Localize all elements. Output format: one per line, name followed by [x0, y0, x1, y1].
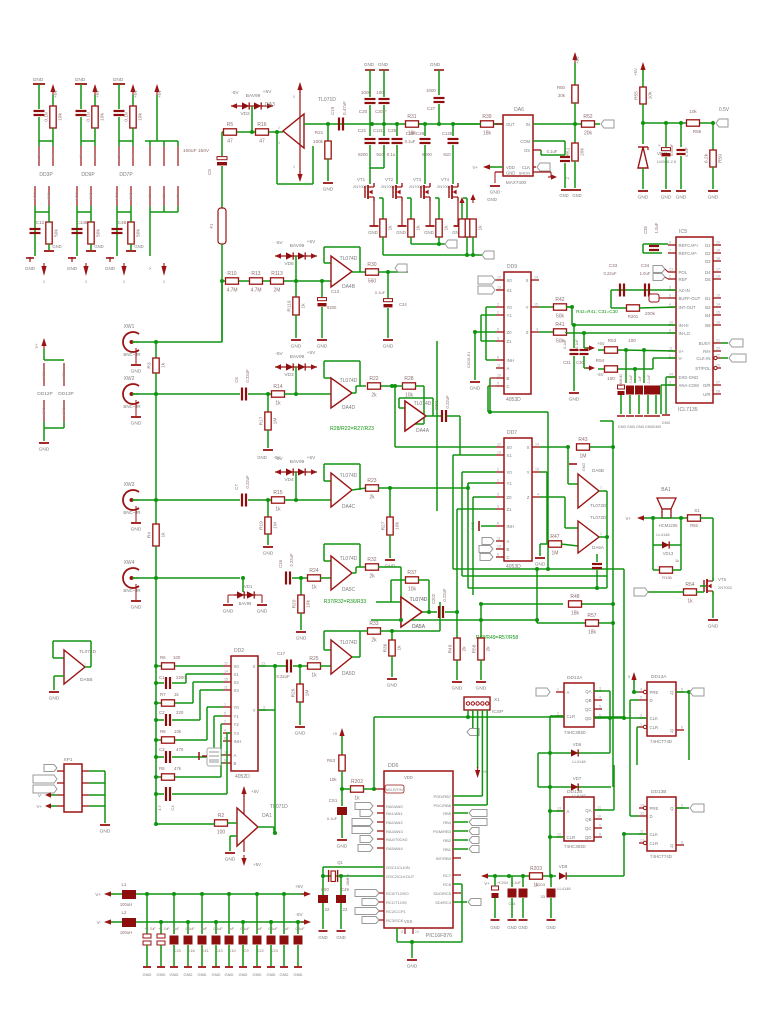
svg-text:A: A — [567, 809, 570, 814]
svg-text:C5: C5 — [207, 169, 212, 175]
svg-text:+C204: +C204 — [497, 881, 508, 885]
svg-text:GND: GND — [676, 195, 687, 201]
svg-text:V+: V+ — [473, 165, 479, 170]
svg-text:4: 4 — [640, 688, 642, 692]
svg-text:R22: R22 — [369, 376, 378, 382]
svg-text:GND: GND — [253, 972, 262, 977]
svg-text:910: 910 — [376, 152, 384, 157]
svg-text:Z0: Z0 — [507, 330, 513, 335]
svg-text:GND: GND — [407, 964, 418, 970]
svg-text:BNC~JR: BNC~JR — [123, 588, 140, 593]
svg-text:0.22uF: 0.22uF — [245, 369, 250, 382]
svg-text:LM4040: LM4040 — [619, 374, 623, 386]
svg-text:GND: GND — [661, 195, 672, 201]
svg-text:10k: 10k — [306, 600, 312, 608]
svg-text:10k: 10k — [58, 113, 64, 121]
svg-text:DA6B: DA6B — [592, 468, 604, 473]
svg-text:R9: R9 — [159, 766, 165, 771]
svg-text:R63: R63 — [327, 758, 336, 763]
svg-text:R28/R22=R27/R23: R28/R22=R27/R23 — [330, 426, 374, 432]
svg-text:DA6A: DA6A — [592, 545, 605, 550]
svg-text:+5: +5 — [332, 731, 337, 736]
svg-text:GND: GND — [129, 192, 133, 200]
svg-text:V+: V+ — [564, 176, 570, 181]
svg-text:1k: 1k — [675, 558, 679, 563]
svg-text:13: 13 — [497, 286, 501, 290]
svg-text:8: 8 — [131, 155, 135, 157]
svg-text:11: 11 — [640, 830, 644, 834]
svg-text:0.1uF: 0.1uF — [405, 139, 416, 144]
svg-text:19: 19 — [716, 249, 720, 253]
svg-text:GND: GND — [198, 972, 207, 977]
svg-text:0.22uF: 0.22uF — [445, 395, 450, 408]
svg-text:Z1: Z1 — [507, 339, 513, 344]
svg-text:R201: R201 — [628, 314, 639, 319]
svg-text:5: 5 — [669, 286, 671, 290]
svg-text:R23: R23 — [367, 478, 376, 484]
svg-text:10k: 10k — [689, 109, 697, 114]
svg-text:8200: 8200 — [422, 152, 432, 157]
svg-text:GND: GND — [507, 925, 516, 930]
svg-text:Y0: Y0 — [507, 305, 513, 310]
svg-text:10k: 10k — [648, 91, 654, 99]
svg-text:4: 4 — [224, 729, 226, 733]
svg-text:Y2: Y2 — [234, 722, 240, 727]
svg-text:R119: R119 — [287, 300, 293, 311]
svg-text:C28: C28 — [416, 131, 425, 136]
svg-text:470: 470 — [176, 747, 184, 752]
svg-text:TL074D: TL074D — [340, 256, 358, 262]
svg-text:5: 5 — [628, 675, 630, 679]
svg-text:0.1uF: 0.1uF — [327, 816, 338, 821]
svg-text:10k: 10k — [100, 113, 106, 121]
svg-text:16: 16 — [716, 321, 720, 325]
svg-text:ANA-COM: ANA-COM — [679, 383, 700, 388]
svg-text:R203: R203 — [530, 866, 542, 872]
svg-text:PIC16F876: PIC16F876 — [426, 933, 452, 939]
svg-text:1uF: 1uF — [638, 376, 642, 382]
svg-text:2: 2 — [278, 126, 280, 130]
svg-text:B1: B1 — [705, 296, 711, 301]
svg-text:BNC~JR: BNC~JR — [123, 404, 140, 409]
svg-text:100uF 160V: 100uF 160V — [183, 148, 210, 154]
svg-text:C16: C16 — [278, 559, 283, 568]
svg-text:X: X — [526, 278, 529, 283]
svg-text:QB: QB — [585, 817, 591, 822]
svg-text:TL074D: TL074D — [79, 649, 97, 655]
svg-text:4.7M: 4.7M — [226, 288, 237, 294]
svg-text:QC: QC — [585, 707, 591, 712]
svg-text:4: 4 — [669, 303, 671, 307]
svg-text:+5V: +5V — [263, 89, 272, 95]
svg-text:100k: 100k — [313, 139, 324, 144]
svg-text:18k: 18k — [588, 630, 597, 636]
svg-text:13: 13 — [557, 807, 561, 811]
svg-text:GND: GND — [487, 197, 497, 202]
svg-text:GND: GND — [257, 609, 268, 615]
svg-text:R52: R52 — [583, 114, 592, 120]
svg-text:5: 5 — [123, 280, 125, 284]
svg-text:C121: C121 — [373, 128, 384, 133]
svg-text:1k: 1k — [416, 225, 422, 231]
svg-text:-5V: -5V — [275, 456, 283, 462]
svg-text:BNC~JR: BNC~JR — [123, 352, 140, 357]
svg-text:RB2: RB2 — [443, 838, 452, 843]
svg-text:10k: 10k — [174, 729, 182, 734]
svg-text:8: 8 — [599, 833, 601, 837]
svg-text:6: 6 — [497, 522, 499, 526]
svg-text:1k: 1k — [311, 673, 317, 679]
svg-text:1k: 1k — [397, 645, 403, 651]
svg-text:VCC: VCC — [42, 371, 46, 378]
svg-text:TL071D: TL071D — [270, 804, 288, 810]
svg-text:10k: 10k — [138, 113, 144, 121]
svg-text:R56: R56 — [693, 129, 702, 134]
svg-text:1: 1 — [497, 479, 499, 483]
svg-text:12: 12 — [497, 276, 501, 280]
svg-text:1k: 1k — [687, 599, 693, 605]
svg-text:50k: 50k — [96, 229, 102, 237]
svg-text:V+: V+ — [34, 343, 39, 349]
svg-text:6.2k: 6.2k — [704, 153, 710, 163]
svg-text:R28: R28 — [404, 376, 413, 382]
svg-text:AZ-IN: AZ-IN — [679, 288, 690, 293]
svg-text:CLK: CLK — [522, 165, 530, 170]
svg-text:C3: C3 — [159, 747, 165, 752]
svg-text:11: 11 — [162, 194, 166, 198]
svg-text:R5: R5 — [227, 122, 234, 128]
svg-text:LL4148: LL4148 — [572, 759, 586, 764]
svg-text:2k: 2k — [369, 574, 375, 580]
svg-text:TL074D: TL074D — [414, 401, 432, 407]
svg-text:1k: 1k — [444, 225, 450, 231]
svg-text:INH: INH — [234, 739, 241, 744]
svg-text:100: 100 — [376, 90, 384, 95]
svg-text:QD: QD — [585, 716, 591, 721]
svg-text:1k: 1k — [311, 585, 317, 591]
svg-text:R2: R2 — [218, 813, 225, 819]
svg-text:Y: Y — [526, 305, 529, 310]
svg-text:R27: R27 — [381, 521, 387, 530]
svg-text:1M: 1M — [273, 418, 279, 425]
svg-text:3: 3 — [263, 706, 265, 710]
svg-text:13: 13 — [261, 662, 265, 666]
svg-text:C9: C9 — [243, 948, 249, 953]
svg-text:2: 2 — [497, 303, 499, 307]
svg-text:SHDN: SHDN — [519, 171, 530, 176]
svg-text:5: 5 — [85, 280, 87, 284]
svg-text:1: 1 — [224, 703, 226, 707]
svg-text:B: B — [507, 547, 510, 552]
svg-text:C21: C21 — [358, 128, 367, 133]
svg-text:6: 6 — [681, 726, 683, 730]
svg-text:F1: F1 — [209, 223, 214, 229]
svg-text:5: 5 — [224, 712, 226, 716]
svg-text:DD13P: DD13P — [58, 391, 73, 397]
svg-text:1uF: 1uF — [201, 927, 208, 931]
svg-text:6: 6 — [224, 737, 226, 741]
svg-text:PGC/RB6: PGC/RB6 — [433, 803, 451, 808]
svg-text:DD7P: DD7P — [119, 172, 133, 178]
svg-text:TL072D: TL072D — [590, 503, 607, 508]
svg-text:XP1: XP1 — [63, 757, 72, 763]
svg-text:VD7: VD7 — [573, 776, 582, 781]
svg-text:6: 6 — [669, 294, 671, 298]
svg-text:REFCAP+: REFCAP+ — [679, 243, 699, 248]
svg-text:XW2: XW2 — [124, 376, 135, 382]
svg-text:2: 2 — [557, 712, 559, 716]
svg-text:DD12A: DD12A — [567, 675, 583, 681]
svg-text:GND: GND — [52, 244, 61, 249]
svg-text:15: 15 — [535, 468, 539, 472]
svg-text:R7: R7 — [160, 692, 166, 697]
svg-text:RC1/T1OSI: RC1/T1OSI — [386, 900, 407, 905]
svg-text:0.1u: 0.1u — [86, 112, 92, 122]
svg-text:IN-LO: IN-LO — [679, 331, 691, 336]
svg-text:R41: R41 — [555, 322, 564, 328]
svg-text:VT2: VT2 — [385, 177, 394, 182]
svg-text:18k: 18k — [571, 611, 580, 617]
svg-text:9: 9 — [669, 329, 671, 333]
svg-text:0.1uF: 0.1uF — [295, 927, 305, 931]
svg-text:R26: R26 — [291, 688, 297, 697]
svg-text:3: 3 — [640, 714, 642, 718]
svg-text:LL4148: LL4148 — [557, 886, 571, 891]
svg-text:50k: 50k — [136, 229, 142, 237]
svg-text:RC7: RC7 — [443, 873, 452, 878]
svg-text:GND: GND — [257, 455, 267, 460]
svg-text:BAV99: BAV99 — [290, 243, 305, 249]
svg-text:QC: QC — [585, 826, 591, 831]
svg-text:C302B-E1: C302B-E1 — [467, 352, 471, 369]
svg-text:100: 100 — [628, 338, 636, 343]
svg-text:4052D: 4052D — [235, 774, 250, 780]
svg-text:GND: GND — [157, 972, 166, 977]
svg-text:+5V: +5V — [295, 884, 304, 889]
svg-text:0.1uF: 0.1uF — [629, 375, 633, 384]
svg-text:R42: R42 — [555, 297, 564, 303]
svg-text:23: 23 — [669, 268, 673, 272]
svg-text:DD7: DD7 — [507, 430, 517, 436]
svg-text:9: 9 — [681, 804, 683, 808]
svg-text:X1: X1 — [507, 453, 513, 458]
svg-text:GND: GND — [364, 62, 375, 67]
svg-text:GND: GND — [25, 266, 36, 271]
svg-text:10k: 10k — [408, 587, 417, 593]
svg-text:GND: GND — [582, 463, 586, 472]
svg-text:2N7002: 2N7002 — [718, 585, 733, 590]
svg-text:C1: C1 — [159, 675, 165, 680]
svg-text:C19: C19 — [330, 106, 335, 115]
svg-text:VCC: VCC — [62, 371, 66, 378]
svg-text:GND: GND — [535, 562, 546, 568]
svg-text:QA: QA — [585, 808, 591, 813]
svg-text:74HC393D: 74HC393D — [564, 730, 586, 735]
svg-text:V-: V- — [679, 356, 684, 361]
svg-text:R10: R10 — [227, 271, 236, 277]
svg-text:TL072D: TL072D — [590, 515, 607, 520]
svg-text:2M: 2M — [274, 288, 281, 294]
svg-text:3: 3 — [497, 337, 499, 341]
svg-text:INH: INH — [507, 524, 514, 529]
svg-text:GND: GND — [318, 935, 327, 940]
svg-text:GND: GND — [323, 187, 334, 193]
svg-text:16: 16 — [37, 154, 41, 158]
svg-text:MAX7400: MAX7400 — [506, 180, 527, 185]
svg-text:-5V: -5V — [295, 912, 303, 917]
svg-text:C25: C25 — [388, 128, 397, 133]
svg-text:GND: GND — [75, 77, 86, 83]
svg-text:DA5D: DA5D — [342, 671, 356, 677]
svg-text:1: 1 — [669, 354, 671, 358]
svg-text:11: 11 — [597, 806, 601, 810]
svg-text:0.5V: 0.5V — [719, 107, 730, 113]
svg-text:IC5: IC5 — [679, 229, 687, 235]
svg-text:VCC: VCC — [33, 192, 37, 200]
svg-text:C201*: C201* — [375, 109, 387, 114]
svg-text:+5V: +5V — [307, 239, 316, 245]
svg-text:5: 5 — [497, 493, 499, 497]
svg-text:GND: GND — [490, 925, 499, 930]
svg-text:R49: R49 — [448, 644, 454, 653]
svg-text:TL074D: TL074D — [340, 473, 358, 479]
svg-text:INT-OUT: INT-OUT — [679, 305, 697, 310]
svg-text:4.7M: 4.7M — [250, 288, 261, 294]
svg-text:1k: 1k — [174, 692, 179, 697]
svg-text:0.1uF: 0.1uF — [213, 927, 223, 931]
svg-text:22: 22 — [343, 907, 348, 912]
svg-text:D5: D5 — [705, 277, 711, 282]
svg-text:10k: 10k — [329, 777, 337, 782]
svg-text:3: 3 — [497, 505, 499, 509]
svg-text:BAV99: BAV99 — [290, 459, 305, 465]
svg-text:GND: GND — [134, 244, 143, 249]
svg-text:2k: 2k — [486, 646, 492, 652]
svg-text:R19: R19 — [259, 521, 265, 530]
svg-text:C202: C202 — [431, 593, 436, 604]
svg-text:GND: GND — [47, 192, 51, 200]
svg-text:8: 8 — [93, 155, 97, 157]
svg-text:C6: C6 — [234, 377, 239, 383]
svg-text:47k: 47k — [174, 766, 182, 771]
svg-text:R55: R55 — [634, 91, 640, 100]
svg-text:11: 11 — [224, 686, 228, 690]
svg-text:INH: INH — [507, 358, 514, 363]
svg-text:GND: GND — [653, 425, 662, 429]
svg-text:18k: 18k — [408, 131, 417, 137]
svg-text:VD13: VD13 — [663, 551, 674, 556]
svg-text:GND: GND — [387, 683, 398, 689]
svg-text:INT/RB0: INT/RB0 — [436, 856, 452, 861]
svg-text:0.22uF: 0.22uF — [245, 475, 250, 488]
svg-text:14: 14 — [224, 670, 228, 674]
svg-text:C4: C4 — [170, 805, 175, 811]
svg-text:0.1u: 0.1u — [124, 112, 130, 122]
svg-text:15: 15 — [534, 303, 538, 307]
svg-text:-5V: -5V — [231, 90, 239, 96]
svg-text:Y0: Y0 — [507, 470, 513, 475]
svg-text:74HCT74D: 74HCT74D — [650, 854, 672, 859]
svg-text:C31: C31 — [563, 360, 571, 365]
svg-text:VT1: VT1 — [357, 177, 366, 182]
svg-text:R36: R36 — [383, 643, 389, 652]
svg-text:CLR: CLR — [650, 725, 659, 730]
svg-text:0.1u: 0.1u — [44, 112, 50, 122]
svg-text:X1: X1 — [507, 288, 513, 293]
svg-text:0.22uF: 0.22uF — [276, 674, 289, 679]
svg-text:GND: GND — [267, 972, 276, 977]
svg-text:+5V: +5V — [597, 341, 605, 346]
svg-text:REF: REF — [679, 277, 688, 282]
svg-text:R13: R13 — [251, 271, 260, 277]
svg-text:GND: GND — [143, 972, 152, 977]
svg-text:1: 1 — [640, 723, 642, 727]
svg-text:X0: X0 — [507, 445, 513, 450]
svg-text:0.1uF: 0.1uF — [185, 927, 195, 931]
svg-text:VDD: VDD — [404, 775, 413, 780]
svg-text:C203: C203 — [535, 882, 545, 887]
svg-text:VCC: VCC — [115, 192, 119, 200]
svg-text:GND: GND — [131, 605, 142, 611]
svg-text:VT3: VT3 — [413, 177, 422, 182]
svg-text:C49: C49 — [341, 887, 349, 892]
svg-text:R4: R4 — [147, 532, 153, 538]
svg-text:0.1uF: 0.1uF — [375, 290, 386, 295]
svg-text:GND: GND — [708, 624, 719, 630]
svg-text:SDI/RC4: SDI/RC4 — [435, 900, 452, 905]
svg-text:560: 560 — [368, 279, 377, 285]
svg-text:1M: 1M — [552, 551, 559, 557]
svg-text:TL074D: TL074D — [340, 640, 358, 646]
svg-text:C2: C2 — [159, 710, 165, 715]
svg-text:R14: R14 — [273, 384, 282, 390]
svg-text:14: 14 — [534, 276, 538, 280]
svg-text:GND: GND — [627, 425, 636, 429]
svg-text:0.22uF: 0.22uF — [289, 553, 294, 566]
svg-text:11: 11 — [497, 364, 501, 368]
svg-text:0.22uF: 0.22uF — [442, 588, 447, 601]
svg-text:QD: QD — [585, 835, 591, 840]
svg-text:GND: GND — [294, 972, 303, 977]
svg-text:7: 7 — [669, 249, 671, 253]
svg-text:Z1: Z1 — [507, 507, 513, 512]
svg-text:QB: QB — [585, 698, 591, 703]
svg-text:20k: 20k — [584, 131, 593, 137]
svg-text:BNC~JR: BNC~JR — [123, 510, 140, 515]
svg-text:R48: R48 — [570, 594, 579, 600]
svg-text:OUT: OUT — [506, 122, 515, 127]
svg-text:XW3: XW3 — [124, 482, 135, 488]
svg-text:100: 100 — [607, 376, 615, 381]
svg-text:R53: R53 — [608, 338, 617, 343]
svg-text:100: 100 — [173, 655, 181, 660]
svg-text:1: 1 — [600, 532, 602, 536]
svg-text:GND: GND — [295, 731, 306, 737]
svg-text:VD2: VD2 — [240, 111, 250, 117]
svg-text:GND: GND — [569, 397, 580, 403]
svg-text:RA3/AN3: RA3/AN3 — [386, 829, 403, 834]
svg-text:DA6: DA6 — [514, 107, 524, 113]
svg-text:X1: X1 — [234, 672, 240, 677]
svg-text:910: 910 — [443, 152, 451, 157]
svg-text:11: 11 — [176, 194, 180, 198]
svg-text:2: 2 — [669, 275, 671, 279]
svg-text:L1: L1 — [121, 882, 127, 887]
svg-text:V+: V+ — [484, 881, 490, 886]
svg-text:5: 5 — [599, 705, 601, 709]
svg-text:DA5C: DA5C — [342, 587, 356, 593]
svg-text:GND: GND — [223, 609, 234, 615]
